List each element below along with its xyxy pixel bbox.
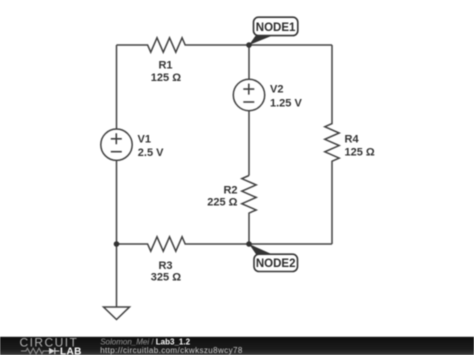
resistor R4 (325, 45, 339, 244)
svg-text:R2: R2 (223, 185, 237, 197)
node junction dot NODE1 (246, 42, 252, 48)
logo resistor zigzag (21, 348, 49, 353)
voltage source V1 (101, 129, 132, 160)
wire: left vertical from V1 bottom to ground (116, 160, 118, 307)
svg-text:http://circuitlab.com/ckwkszu8: http://circuitlab.com/ckwkszu8wcy78 (100, 346, 243, 355)
svg-text:NODE1: NODE1 (256, 22, 296, 34)
node junction dot NODE2 (246, 241, 252, 247)
wire: left vertical from top-left corner down to V1 (116, 45, 118, 129)
resistor R2 (242, 176, 256, 245)
svg-text:LAB: LAB (60, 346, 82, 355)
wire: middle vertical from NODE1 to V2 top (248, 45, 250, 79)
V2 plus sign (243, 84, 254, 95)
V1 plus sign (111, 133, 122, 144)
svg-text:125 Ω: 125 Ω (345, 146, 375, 158)
svg-text:225 Ω: 225 Ω (207, 197, 237, 209)
node label NODE1 box (254, 17, 298, 35)
pointer to NODE2 (249, 244, 272, 254)
svg-text:V2: V2 (270, 84, 283, 96)
pointer to NODE1 (249, 36, 272, 45)
logo diode (49, 348, 55, 354)
V2 minus sign (243, 101, 254, 103)
V1 minus sign (111, 151, 122, 153)
svg-text:R3: R3 (158, 260, 172, 272)
node label NODE2 box (254, 254, 298, 271)
svg-text:1.25 V: 1.25 V (270, 98, 302, 110)
svg-text:325 Ω: 325 Ω (151, 272, 181, 284)
svg-text:2.5 V: 2.5 V (138, 147, 164, 159)
footer bar (0, 337, 474, 355)
resistor R3 (117, 237, 333, 251)
svg-text:NODE2: NODE2 (256, 258, 296, 270)
svg-text:R4: R4 (345, 134, 360, 146)
voltage source V2 (233, 79, 264, 110)
ground (104, 307, 130, 320)
svg-text:V1: V1 (138, 134, 151, 146)
svg-text:R1: R1 (158, 60, 172, 72)
junction dot left bottom (114, 241, 120, 247)
resistor R1 (117, 38, 333, 52)
svg-text:125 Ω: 125 Ω (151, 72, 181, 84)
wire: middle vertical V2 bottom to R2 (248, 111, 250, 176)
